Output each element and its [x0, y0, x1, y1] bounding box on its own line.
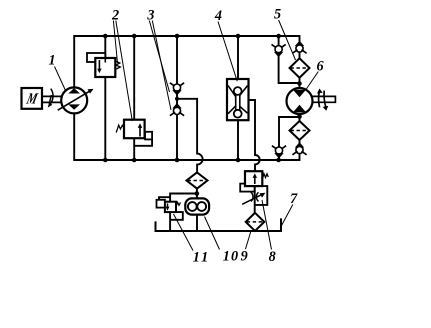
svg-text:5: 5	[274, 7, 281, 23]
svg-text:9: 9	[241, 249, 248, 265]
svg-text:8: 8	[269, 249, 276, 265]
svg-text:1: 1	[48, 53, 55, 69]
svg-text:11: 11	[193, 250, 210, 266]
svg-text:4: 4	[214, 8, 222, 24]
svg-text:10: 10	[223, 249, 240, 265]
svg-text:2: 2	[111, 8, 119, 24]
svg-text:7: 7	[290, 191, 298, 207]
svg-text:3: 3	[146, 8, 154, 24]
svg-text:6: 6	[316, 58, 324, 74]
